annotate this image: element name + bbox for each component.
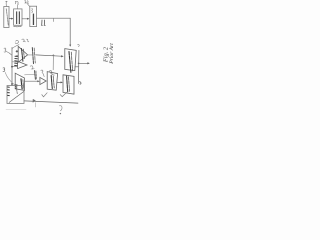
check squiggle under B1: [42, 93, 47, 97]
label 30 squiggle with leader to bus: [12, 39, 29, 48]
center box B1 (parallelogram): [47, 72, 57, 91]
label 5 above block 10: [6, 1, 8, 6]
faint line below ramp box: [6, 108, 26, 110]
box 72 (divider): [30, 6, 37, 26]
box L text column: [21, 79, 22, 89]
amp A2 triangle (small): [18, 61, 27, 68]
text under box 12: [14, 26, 21, 28]
wire arrow 10 to 12: [9, 18, 12, 20]
left bus line: [11, 48, 13, 86]
box 10 (oscillator): [4, 7, 9, 28]
s-curl under A2 output: [30, 66, 34, 69]
upper center box U: [65, 49, 76, 71]
junction mark on bottom wire: [33, 99, 36, 102]
box B1 text column: [51, 76, 52, 89]
ramp box left ticks: [8, 87, 10, 96]
box 12 (crystal): [14, 9, 22, 25]
junction and branch down with label 34: [53, 55, 55, 57]
wire A1-column to center box with arrowhead: [36, 55, 62, 56]
check squiggle under B2: [60, 92, 67, 96]
out arrow right: [79, 62, 88, 64]
link amp1 apex to column: [28, 54, 32, 56]
label above buffer with leader: [41, 70, 44, 77]
bottom wire: [24, 101, 78, 103]
label 6 near box U top right: [78, 45, 80, 47]
label 12 above crystal box with leader: [15, 1, 18, 8]
stub on top wire: [53, 18, 55, 21]
label 10 hook below bottom wire: [59, 106, 62, 111]
ramp generator box: [7, 86, 24, 104]
label 16 left: [3, 68, 5, 72]
buffer triangle: [40, 77, 46, 84]
label 8 left with leader: [4, 48, 12, 55]
connector box U to right bus: [75, 66, 79, 68]
label 44 ticks below top wire: [41, 20, 45, 26]
tick at bus bottom: [79, 82, 81, 85]
leader line above box L to column M2: [25, 73, 36, 76]
svg-text:Prior Art: Prior Art: [109, 43, 115, 65]
label 72 with slanted leader: [25, 1, 30, 7]
text column after A1: [32, 48, 35, 64]
top wire from 72 to corner: [37, 17, 71, 19]
center box B2: [63, 75, 74, 94]
box L input marks: [15, 85, 17, 89]
amp A1 triangle (mid-left): [18, 46, 27, 62]
box B2 text column: [67, 76, 68, 92]
amp A1 inner text: [21, 49, 23, 62]
arrow B1 to B2: [57, 81, 61, 83]
lower-left box L with slanted top: [15, 73, 24, 90]
corner wire down with arrowhead: [69, 18, 71, 44]
ramp diagonal: [9, 92, 23, 103]
leader curve to box L: [5, 72, 15, 85]
A2 input marks: [15, 56, 18, 65]
input stubs from bus to A1/A2: [12, 62, 17, 67]
right bus line: [77, 50, 80, 83]
wire box L to buffer with arrowhead: [25, 80, 38, 82]
amp A1 input marks: [16, 50, 18, 56]
box U text column: [69, 52, 71, 73]
ramp box inner text: [16, 86, 17, 93]
bus junction dots: [11, 66, 13, 68]
wire arrow 12 to 72: [22, 18, 28, 20]
text column M2 above wire to buffer: [34, 71, 37, 80]
